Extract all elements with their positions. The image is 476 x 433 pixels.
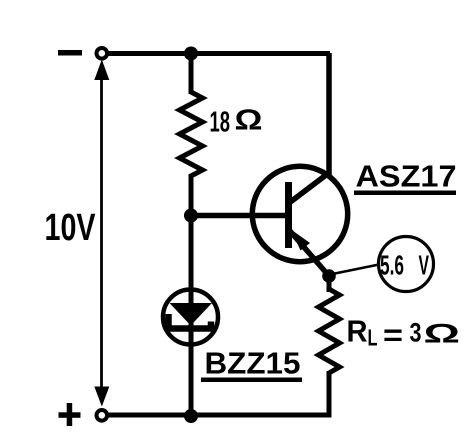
wire zener cathode to bottom rail bbox=[189, 330, 194, 416]
wire R1 bottom to base node bbox=[189, 174, 194, 218]
svg-text:3: 3 bbox=[410, 318, 422, 348]
svg-text:V: V bbox=[419, 250, 430, 281]
svg-text:Ω: Ω bbox=[235, 105, 263, 137]
wire emitter node to RL bbox=[327, 276, 332, 292]
zener diode D1 BZZ15 bbox=[163, 290, 218, 345]
transistor Q1 ASZ17 (PNP) bbox=[252, 166, 347, 276]
wire bottom rail bbox=[106, 413, 332, 418]
label RL = 3 ohm bbox=[347, 314, 461, 353]
wire base bbox=[191, 213, 289, 219]
dimension line 10V bbox=[94, 60, 109, 407]
svg-text:=: = bbox=[383, 318, 403, 353]
node bottom junction bbox=[184, 409, 198, 423]
node base junction bbox=[184, 209, 198, 223]
annotation 5.6 V bbox=[379, 237, 434, 292]
terminal negative bbox=[97, 48, 108, 59]
svg-text:ASZ17: ASZ17 bbox=[356, 159, 457, 194]
svg-text:18: 18 bbox=[210, 107, 231, 139]
wire right vertical (collector branch) bbox=[326, 53, 332, 176]
resistor RL 3 ohm bbox=[319, 289, 340, 373]
wire RL bottom to bottom rail bbox=[327, 371, 332, 415]
svg-text:10V: 10V bbox=[45, 207, 96, 249]
leader line to 5.6V annotation bbox=[330, 265, 379, 275]
wire zener branch bbox=[189, 215, 194, 326]
svg-text:Ω: Ω bbox=[424, 319, 461, 349]
svg-text:R: R bbox=[347, 314, 368, 349]
svg-text:5.6: 5.6 bbox=[380, 250, 404, 281]
wire top rail bbox=[106, 51, 330, 56]
node top junction bbox=[184, 47, 198, 61]
node emitter junction bbox=[322, 269, 336, 283]
label minus bbox=[58, 50, 82, 56]
terminal positive bbox=[97, 410, 108, 421]
label plus bbox=[59, 403, 81, 426]
label ASZ17 bbox=[354, 159, 457, 196]
label BZZ15 bbox=[201, 346, 302, 383]
label 18 ohm bbox=[210, 105, 263, 139]
wire top junction to R1 bbox=[189, 53, 194, 94]
resistor R1 18 ohm bbox=[180, 92, 203, 176]
svg-text:L: L bbox=[368, 325, 378, 351]
svg-text:BZZ15: BZZ15 bbox=[205, 346, 301, 381]
